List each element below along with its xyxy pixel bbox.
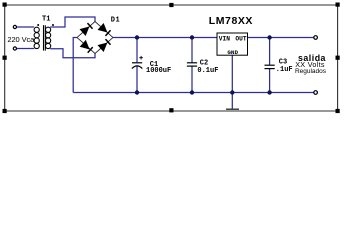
svg-text:GND: GND xyxy=(227,49,238,56)
svg-text:0.1uF: 0.1uF xyxy=(197,67,218,75)
svg-text:VIN: VIN xyxy=(219,35,230,42)
svg-text:D1: D1 xyxy=(111,16,120,24)
svg-text:OUT: OUT xyxy=(235,35,246,42)
svg-text:T1: T1 xyxy=(42,16,50,24)
svg-text:1000uF: 1000uF xyxy=(146,67,171,75)
